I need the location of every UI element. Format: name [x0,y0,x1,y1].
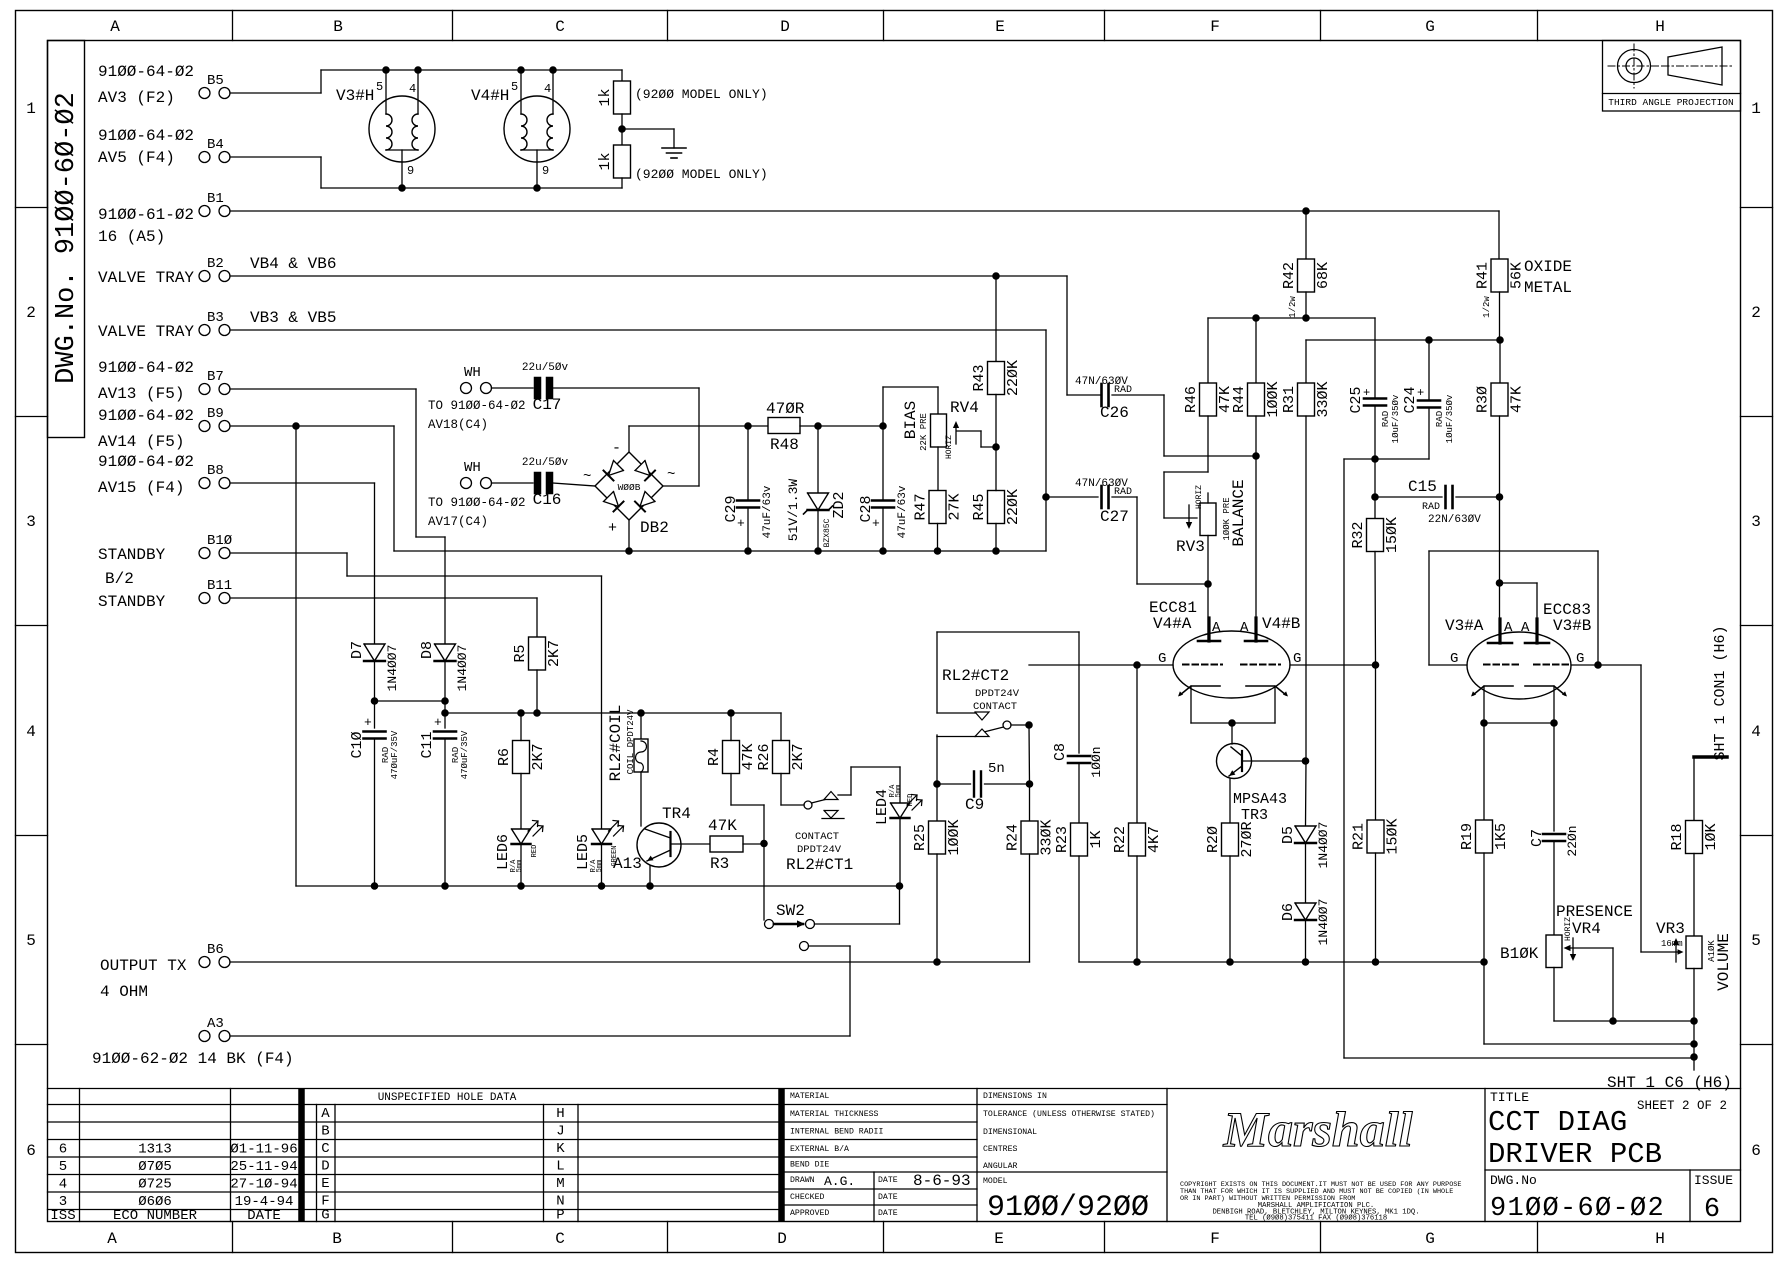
capacitor C10 [349,715,400,886]
valve heater V4#H [471,66,570,192]
resistor R4 [706,713,764,805]
svg-text:RV4: RV4 [950,399,979,417]
svg-text:C17: C17 [533,396,562,414]
svg-text:C25: C25 [1348,386,1365,413]
svg-text:R25: R25 [912,824,929,851]
svg-text:1: 1 [26,100,36,118]
diode D7 [349,641,400,728]
svg-text:5mm: 5mm [596,860,604,873]
svg-text:DATE: DATE [878,1193,898,1202]
capacitor C15 [1375,478,1500,526]
svg-text:CONTACT: CONTACT [973,701,1017,713]
valve heater V3#H [336,66,435,192]
svg-text:~: ~ [583,469,591,485]
svg-text:B2: B2 [207,256,224,272]
marshall logo block [1180,1089,1485,1223]
svg-text:5: 5 [59,1159,67,1175]
output feedback bus [230,958,1030,966]
svg-text:H: H [1655,18,1665,36]
svg-text:A: A [321,1106,330,1122]
DWG number box [48,41,85,438]
svg-text:R46: R46 [1183,386,1200,413]
svg-text:AV5 (F4): AV5 (F4) [98,149,175,167]
svg-text:4: 4 [409,82,416,96]
svg-text:B5: B5 [207,73,224,89]
svg-text:ZD2: ZD2 [831,491,848,518]
capacitor C28 [858,387,909,551]
V4 cathode bus [1191,686,1275,727]
svg-text:R31: R31 [1281,386,1298,413]
svg-text:C8: C8 [1052,743,1069,761]
connector B7 [98,359,230,403]
svg-text:UNSPECIFIED HOLE DATA: UNSPECIFIED HOLE DATA [378,1092,517,1104]
svg-text:+: + [872,516,880,531]
svg-text:Ø725: Ø725 [138,1177,172,1193]
transistor TR3 [1217,723,1306,824]
svg-text:47uF/63v: 47uF/63v [897,485,909,538]
bus HT rail B [1306,336,1504,400]
svg-text:27-1Ø-94: 27-1Ø-94 [230,1177,297,1193]
svg-text:Ø1-11-96: Ø1-11-96 [230,1142,297,1158]
svg-text:RAD: RAD [1114,487,1132,498]
resistor R22 [1112,665,1163,962]
svg-text:51V/1.3W: 51V/1.3W [786,479,801,542]
wire bias rail [883,387,938,414]
svg-text:AV15 (F4): AV15 (F4) [98,479,184,497]
svg-text:C26: C26 [1100,404,1129,422]
svg-text:CENTRES: CENTRES [983,1145,1017,1154]
wire CT2 to C9 R24 [1028,725,1031,784]
svg-text:A: A [107,1230,117,1248]
svg-text:AV3 (F2): AV3 (F2) [98,89,175,107]
capacitor C17 [492,362,700,414]
revision table text [50,1142,297,1225]
svg-text:VOLUME: VOLUME [1715,933,1733,991]
svg-text:BALANCE: BALANCE [1230,479,1248,546]
svg-text:5: 5 [376,80,383,94]
svg-text:47K: 47K [708,817,737,835]
svg-text:1313: 1313 [138,1142,172,1158]
svg-text:DPDT24V: DPDT24V [975,688,1020,700]
capacitor C25 [1348,318,1401,459]
wire B1 HT line [230,207,1499,259]
svg-text:B9: B9 [207,406,224,422]
svg-text:G: G [1425,1230,1435,1248]
resistor R46 [1183,383,1234,416]
svg-text:47ØuF/35V: 47ØuF/35V [460,730,470,779]
resistor 1k lower [597,145,631,188]
svg-text:C1Ø: C1Ø [349,731,366,758]
resistor R21 [1351,665,1402,962]
relay coil RL2#COIL [607,705,648,826]
switch SW2 [230,886,900,1036]
svg-text:RAD: RAD [1114,385,1132,396]
svg-text:E: E [321,1176,329,1192]
connector WH C16 [428,460,526,529]
svg-text:B: B [321,1124,329,1140]
svg-text:2: 2 [1751,304,1761,322]
resistor R32 [1350,497,1401,665]
svg-text:F: F [1210,1230,1220,1248]
svg-text:+: + [364,715,372,730]
svg-text:R21: R21 [1351,823,1368,850]
capacitor C26 [1075,376,1256,456]
svg-text:VB4 & VB6: VB4 & VB6 [250,255,336,273]
svg-text:15ØK: 15ØK [1385,818,1402,854]
svg-text:D: D [321,1159,329,1175]
svg-text:4K7: 4K7 [1146,826,1163,853]
svg-text:4 OHM: 4 OHM [100,983,148,1001]
svg-text:B8: B8 [207,463,224,479]
svg-text:STANDBY: STANDBY [98,546,166,564]
capacitor C8 [1052,632,1104,823]
svg-text:G: G [1425,18,1435,36]
resistor R42 [1281,259,1332,318]
svg-text:V3#H: V3#H [336,87,374,105]
V3 anode wires [1500,583,1538,643]
svg-text:1N4ØØ7: 1N4ØØ7 [1316,822,1331,869]
svg-text:R4: R4 [706,748,723,766]
wire B11 to R5 [230,598,537,637]
svg-text:ISSUE: ISSUE [1694,1173,1733,1188]
svg-text:DRAWN: DRAWN [790,1176,815,1185]
connector B10 [98,533,232,564]
connector B5 [98,63,230,107]
svg-text:R41: R41 [1475,262,1492,289]
capacitor C29 [723,426,774,551]
svg-text:D7: D7 [349,641,366,659]
pot VR4 presence [1500,917,1698,1025]
bus HT rail A [1208,314,1375,383]
svg-text:B6: B6 [207,942,224,958]
svg-text:27ØR: 27ØR [1239,821,1256,857]
svg-text:5mm: 5mm [516,860,524,873]
svg-text:D8: D8 [419,641,436,659]
svg-text:1N4ØØ7: 1N4ØØ7 [385,645,400,692]
tube ECC83 V3 [1445,601,1591,699]
svg-text:R48: R48 [770,436,799,454]
svg-text:1K: 1K [1088,830,1105,848]
svg-text:BIAS: BIAS [902,401,920,439]
svg-text:R22: R22 [1112,826,1129,853]
svg-text:V3#B: V3#B [1553,617,1591,635]
connector B2 [98,255,336,287]
svg-text:V4#B: V4#B [1262,615,1300,633]
label 9200 model only upper [635,87,768,102]
resistor 1k upper [597,70,631,145]
junction 1k midpoint [618,125,674,133]
svg-text:47ØR: 47ØR [766,400,805,418]
svg-text:91ØØ-64-Ø2: 91ØØ-64-Ø2 [98,127,194,145]
wire NFB long [1344,459,1694,1058]
svg-text:SHT 1 CON1 (H6): SHT 1 CON1 (H6) [1712,625,1729,760]
label SHT 1 C6 [1607,1074,1732,1092]
svg-text:V4#A: V4#A [1153,615,1192,633]
svg-text:OXIDE: OXIDE [1524,258,1572,276]
wire B9 branch down [295,426,297,886]
svg-text:47ØuF/35V: 47ØuF/35V [390,730,400,779]
svg-text:DRIVER PCB: DRIVER PCB [1488,1138,1662,1171]
svg-text:R5: R5 [512,644,529,662]
svg-text:R23: R23 [1054,826,1071,853]
svg-text:B4: B4 [207,137,224,153]
connector B4 [98,127,230,167]
capacitor C16 [492,457,596,509]
svg-text:TO 91ØØ-64-Ø2: TO 91ØØ-64-Ø2 [428,496,526,510]
svg-text:SHT 1 C6 (H6): SHT 1 C6 (H6) [1607,1074,1732,1092]
svg-text:91ØØ-64-Ø2: 91ØØ-64-Ø2 [98,359,194,377]
capacitor C24 [1344,386,1455,459]
wire D7-D8 link [375,700,446,702]
svg-text:4: 4 [26,723,36,741]
svg-text:V3#A: V3#A [1445,617,1484,635]
svg-text:R3Ø: R3Ø [1475,386,1492,413]
connector B6 [100,942,230,1001]
svg-text:RL2#CT1: RL2#CT1 [786,856,853,874]
svg-text:6: 6 [59,1142,67,1158]
svg-text:P: P [556,1208,564,1224]
svg-text:CHECKED: CHECKED [790,1193,824,1202]
svg-text:MATERIAL: MATERIAL [790,1092,829,1101]
wire CT2 lower to R25 [936,737,938,785]
svg-text:SW2: SW2 [776,902,805,920]
svg-text:Ø7Ø5: Ø7Ø5 [138,1159,172,1175]
connector WH C17 [428,365,526,432]
svg-text:G: G [321,1208,329,1224]
svg-text:16mm: 16mm [1661,939,1683,949]
svg-text:HORIZ: HORIZ [945,435,954,459]
svg-text:AV14 (F5): AV14 (F5) [98,433,184,451]
svg-text:C: C [321,1141,329,1157]
svg-text:22ØK: 22ØK [1005,360,1022,396]
svg-text:27K: 27K [947,493,964,520]
svg-text:H: H [556,1106,564,1122]
relay contact RL2#CT2 [937,632,1079,737]
resistor R5 [512,637,563,717]
svg-text:DB2: DB2 [640,519,669,537]
svg-text:VR4: VR4 [1572,920,1601,938]
svg-text:B1ØK: B1ØK [1500,945,1539,963]
svg-text:C15: C15 [1408,478,1437,496]
svg-text:5: 5 [511,80,518,94]
connector A3 [92,1016,294,1068]
svg-text:91ØØ-64-Ø2: 91ØØ-64-Ø2 [98,407,194,425]
svg-text:E: E [994,1230,1004,1248]
svg-text:47K: 47K [740,743,757,770]
svg-text:91ØØ-64-Ø2: 91ØØ-64-Ø2 [98,453,194,471]
svg-text:4: 4 [544,82,551,96]
svg-text:DATE: DATE [878,1209,898,1218]
svg-text:VB3 & VB5: VB3 & VB5 [250,309,336,327]
svg-text:15ØK: 15ØK [1384,517,1401,553]
junction TR3 base [1302,757,1310,765]
svg-text:A13: A13 [613,855,642,873]
third angle projection box [1603,41,1741,112]
svg-text:TEL (Ø9Ø8)375411 FAX (Ø9Ø8)376: TEL (Ø9Ø8)375411 FAX (Ø9Ø8)376118 [1245,1214,1387,1223]
ground bus right [1079,958,1488,966]
resistor R25 [912,784,963,962]
svg-text:22u/5Øv: 22u/5Øv [522,362,569,374]
svg-text:F: F [1210,18,1220,36]
tube ECC81 V4 [1149,599,1301,698]
svg-text:R18: R18 [1669,823,1686,850]
svg-text:6: 6 [26,1142,36,1160]
svg-text:22ØK: 22ØK [1005,489,1022,525]
svg-text:1: 1 [1751,100,1761,118]
svg-text:ECO NUMBER: ECO NUMBER [113,1208,198,1224]
svg-text:1N4ØØ7: 1N4ØØ7 [1316,899,1331,946]
svg-text:C: C [555,18,565,36]
resistor R23 [1054,823,1105,962]
resistor R45 [971,447,1022,551]
label B/2 [105,570,134,588]
svg-text:2K7: 2K7 [546,640,563,667]
wire B2 line [230,272,1101,395]
svg-text:C16: C16 [533,491,562,509]
unspecified hole data table [305,1089,785,1224]
svg-text:WØØB: WØØB [618,482,641,493]
svg-text:1ØuF/35Øv: 1ØuF/35Øv [1391,394,1401,443]
svg-text:2K7: 2K7 [790,743,807,770]
svg-text:9: 9 [542,164,549,178]
pot RV4 BIAS [902,399,996,459]
svg-text:R3: R3 [710,855,729,873]
svg-text:B3: B3 [207,310,224,326]
svg-text:16 (A5): 16 (A5) [98,228,165,246]
svg-text:25-11-94: 25-11-94 [230,1159,297,1175]
resistor R6 [496,713,547,829]
svg-text:WH: WH [464,365,481,381]
connector B9 [98,406,230,451]
wire B4 to heater bottom bus [230,157,622,188]
resistor R18 [1669,757,1720,936]
svg-text:2: 2 [26,304,36,322]
svg-text:RAD: RAD [1381,411,1391,427]
svg-text:RV3: RV3 [1176,538,1205,556]
svg-text:THIRD ANGLE PROJECTION: THIRD ANGLE PROJECTION [1608,97,1733,108]
title block [1485,1090,1741,1225]
svg-text:DPDT24V: DPDT24V [797,844,842,856]
svg-text:HORIZ: HORIZ [1564,917,1573,941]
svg-text:R6: R6 [496,748,513,766]
diode D6 [1280,843,1331,962]
diode D8 [419,641,470,728]
svg-text:MATERIAL THICKNESS: MATERIAL THICKNESS [790,1110,879,1119]
pot RV3 balance [1176,479,1248,584]
connector B11 [98,578,232,611]
svg-text:Marshall: Marshall [1223,1101,1413,1157]
svg-text:91ØØ-62-Ø2 14 BK (F4): 91ØØ-62-Ø2 14 BK (F4) [92,1050,294,1068]
svg-text:(92ØØ MODEL ONLY): (92ØØ MODEL ONLY) [635,87,768,102]
svg-text:AV13 (F5): AV13 (F5) [98,385,184,403]
svg-text:RAD: RAD [1422,502,1440,513]
svg-text:22Øn: 22Øn [1565,825,1580,856]
svg-text:C9: C9 [965,796,984,814]
svg-text:3: 3 [26,513,36,531]
revision table [48,1089,1741,1222]
svg-text:47uF/63v: 47uF/63v [762,485,774,538]
svg-text:4: 4 [59,1177,67,1193]
svg-text:C: C [555,1230,565,1248]
svg-text:DIMENSIONS IN: DIMENSIONS IN [983,1092,1047,1101]
resistor R24 [1005,784,1056,962]
svg-text:R19: R19 [1459,823,1476,850]
ground [662,129,686,158]
svg-text:B7: B7 [207,369,224,385]
svg-text:6: 6 [1751,1142,1761,1160]
pot VR3 volume [1673,933,1733,1070]
svg-text:33ØK: 33ØK [1315,381,1332,417]
svg-text:CCT DIAG: CCT DIAG [1488,1106,1627,1139]
svg-text:R2Ø: R2Ø [1205,826,1222,853]
svg-text:RED: RED [531,845,539,858]
svg-text:C24: C24 [1402,386,1419,413]
rectifier ground bus [394,547,1046,555]
LED4 [874,784,922,886]
svg-text:C27: C27 [1100,508,1129,526]
svg-text:2K7: 2K7 [530,743,547,770]
svg-text:1ØuF/35Øv: 1ØuF/35Øv [1445,394,1455,443]
svg-text:R32: R32 [1350,521,1367,548]
svg-text:OUTPUT TX: OUTPUT TX [100,957,187,975]
LED6 [495,821,543,887]
junction C25 node [1371,455,1379,501]
svg-text:A3: A3 [207,1016,224,1032]
svg-text:CONTACT: CONTACT [795,831,839,843]
connector B8 [98,453,230,497]
svg-text:1ØØK: 1ØØK [946,819,963,855]
svg-text:DATE: DATE [247,1208,281,1224]
svg-text:TITLE: TITLE [1490,1090,1529,1105]
resistor R20 [1205,821,1256,962]
wire B8 to D7 [230,483,375,644]
connector B1 [98,191,230,246]
svg-text:(92ØØ MODEL ONLY): (92ØØ MODEL ONLY) [635,167,768,182]
svg-text:AV17(C4): AV17(C4) [428,515,488,529]
svg-text:VALVE TRAY: VALVE TRAY [98,269,194,287]
svg-text:~: ~ [667,467,675,483]
svg-text:TO 91ØØ-64-Ø2: TO 91ØØ-64-Ø2 [428,399,526,413]
svg-text:6: 6 [1704,1195,1720,1225]
svg-text:1ØØK: 1ØØK [1265,381,1282,417]
svg-text:68K: 68K [1315,262,1332,289]
svg-text:DIMENSIONAL: DIMENSIONAL [983,1128,1037,1137]
svg-text:9: 9 [407,164,414,178]
svg-text:91ØØ-64-Ø2: 91ØØ-64-Ø2 [98,63,194,81]
svg-text:VALVE TRAY: VALVE TRAY [98,323,194,341]
resistor R19 [1459,723,1694,1044]
V3 grid loop [1429,551,1641,669]
label presence [1556,903,1633,938]
svg-text:4: 4 [1751,723,1761,741]
svg-text:RL2#COIL: RL2#COIL [607,705,625,782]
svg-text:D6: D6 [1280,903,1297,921]
svg-text:DATE: DATE [878,1176,898,1185]
svg-text:ISS: ISS [50,1208,75,1224]
svg-text:B: B [333,18,343,36]
svg-text:D: D [777,1230,787,1248]
svg-text:L: L [556,1159,564,1175]
resistor R3 [708,817,764,873]
svg-text:B/2: B/2 [105,570,134,588]
svg-text:R24: R24 [1005,824,1022,851]
svg-text:A: A [1521,620,1530,636]
svg-text:VR3: VR3 [1656,920,1685,938]
svg-text:91ØØ/92ØØ: 91ØØ/92ØØ [987,1191,1149,1225]
svg-text:91ØØ-6Ø-Ø2: 91ØØ-6Ø-Ø2 [1490,1194,1665,1224]
svg-text:1N4ØØ7: 1N4ØØ7 [455,645,470,692]
resistor R30 [1475,383,1526,643]
